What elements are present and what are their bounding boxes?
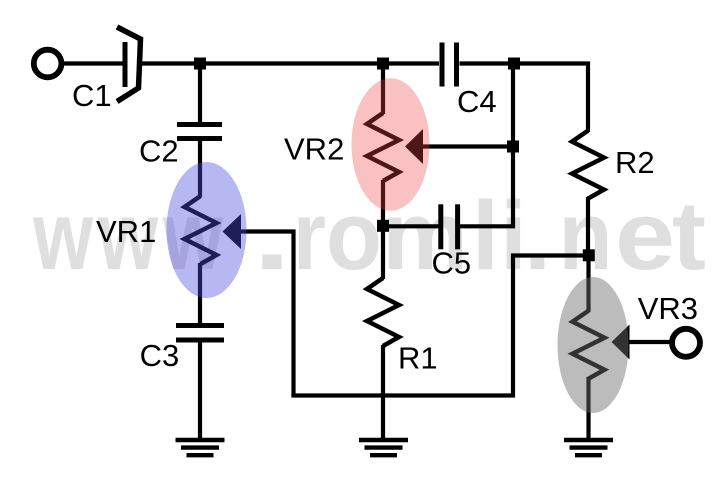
wire VR2 wiper to node D2 (421, 144, 513, 148)
potentiometer VR1 zigzag (185, 196, 217, 264)
node C (377, 220, 389, 232)
capacitor C2 (177, 122, 222, 141)
wire input to C1 (61, 61, 123, 65)
wire node E to VR3 (586, 256, 590, 313)
potentiometer VR2 wiper arrow (405, 129, 423, 164)
wire R2 to node E (586, 197, 590, 256)
highlight ellipse over VR2 (352, 78, 430, 211)
wire VR1 to C3 (198, 263, 202, 324)
wire C2 to VR1 (198, 141, 202, 198)
ground below R1 (359, 440, 408, 455)
wire node A down to C2 (198, 64, 202, 123)
potentiometer VR1 wiper arrow (223, 214, 242, 249)
wire VR1 wiper to corner then down (240, 232, 294, 396)
highlight ellipse over VR1 (167, 162, 247, 298)
capacitor C4 (440, 43, 460, 87)
svg-text:C1: C1 (72, 78, 112, 113)
wire R1 to ground through bottom wire (381, 345, 385, 439)
wire node C to C5 left plate (383, 224, 439, 228)
bottom wire with riser to node E (291, 256, 588, 396)
node E (583, 249, 595, 261)
svg-text:VR2: VR2 (284, 132, 344, 167)
svg-text:C4: C4 (457, 84, 497, 119)
svg-text:t: t (672, 181, 706, 290)
svg-text:C5: C5 (432, 246, 472, 281)
wire C3 to ground (198, 342, 202, 439)
highlight ellipse over VR3 (558, 277, 629, 413)
svg-text:VR1: VR1 (96, 214, 156, 249)
output terminal (672, 329, 700, 357)
capacitor C1 (117, 27, 141, 102)
input terminal (34, 50, 62, 78)
svg-text:C2: C2 (139, 133, 179, 168)
node B (377, 58, 389, 70)
ground below C3 (176, 440, 225, 455)
wire node D down then left to C5 right plate (460, 65, 514, 226)
wire C4 right plate to top-right corner then down to R2 (460, 64, 589, 133)
capacitor C3 (176, 323, 224, 343)
svg-text:n: n (559, 181, 613, 290)
watermark www.romli.net (32, 181, 706, 290)
wire VR2 to node C to R1 (381, 180, 385, 279)
resistor R1 (367, 278, 399, 346)
wire node B down to VR2 (381, 64, 385, 115)
svg-text:R1: R1 (398, 341, 438, 376)
svg-text:.: . (524, 181, 551, 290)
potentiometer VR3 wiper arrow (612, 325, 630, 360)
wire VR3 to ground (586, 377, 590, 439)
node A (194, 58, 206, 70)
wire C1 to C4 left plate (through nodes A and B) (139, 61, 439, 65)
svg-text:e: e (615, 181, 675, 290)
ground below VR3 (564, 440, 613, 455)
wire VR3 wiper to output terminal (628, 340, 671, 344)
potentiometer VR3 zigzag (573, 311, 605, 379)
node D2 (507, 141, 519, 153)
svg-text:l: l (472, 181, 499, 290)
svg-text:r: r (293, 181, 326, 290)
svg-text:VR3: VR3 (638, 291, 698, 326)
potentiometer VR2 zigzag (367, 113, 399, 181)
capacitor C5 (438, 204, 460, 249)
svg-text:w: w (32, 181, 93, 290)
node D (508, 58, 520, 70)
resistor R2 (572, 131, 604, 199)
svg-text:C3: C3 (140, 338, 180, 373)
svg-text:.: . (253, 181, 291, 290)
svg-text:R2: R2 (615, 145, 655, 180)
